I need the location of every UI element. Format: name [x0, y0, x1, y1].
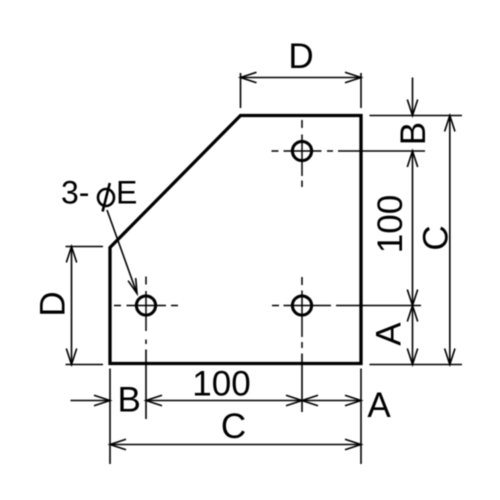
leader 3-phiE text: [61, 175, 137, 211]
dimension D top extension left: [240, 73, 242, 108]
centerline H2 vertical: [301, 277, 303, 348]
dimension A right line: [407, 306, 417, 365]
svg-text:A: A: [367, 386, 391, 425]
dimension B right top extension: [370, 115, 463, 117]
dimension D left line: [66, 247, 76, 365]
svg-text:100: 100: [192, 365, 250, 404]
svg-text:D: D: [288, 37, 313, 76]
leader line with arrow: [107, 210, 137, 294]
dimension D top line: [241, 72, 362, 82]
dimension B right arrow: [407, 78, 417, 116]
dimension 100 bottom line: [146, 395, 302, 405]
svg-text:D: D: [34, 291, 73, 316]
centerline H3 horizontal: [114, 305, 178, 307]
centerline H3 vertical: [145, 277, 147, 345]
svg-text:A: A: [370, 322, 409, 346]
dimension D left extension bottom: [66, 364, 104, 366]
svg-text:C: C: [417, 225, 456, 250]
centerline H1 horizontal: [272, 150, 334, 152]
svg-text:B: B: [118, 381, 141, 420]
hole H1 top: [292, 141, 311, 160]
svg-text:3-: 3-: [61, 175, 89, 211]
svg-text:E: E: [116, 175, 137, 211]
phi symbol: [98, 183, 114, 212]
extension line H3 center down: [145, 350, 147, 420]
extension line H2 center down: [301, 354, 303, 413]
dimension C bottom line: [110, 439, 361, 449]
dimension D top extension right: [360, 73, 362, 108]
hole H2 bottom right: [292, 296, 311, 315]
bottom left extension line: [109, 369, 111, 465]
svg-text:C: C: [221, 407, 246, 446]
dimension A bottom line: [302, 395, 361, 405]
dimension B bottom arrow: [71, 395, 111, 405]
centerline H1 vertical: [301, 120, 303, 187]
dimension 100 right line: [407, 151, 417, 306]
dimension C right line: [445, 116, 455, 365]
extension line H1 centerline to right: [338, 150, 425, 152]
svg-text:B: B: [394, 122, 433, 145]
centerline H2 horizontal: [272, 305, 331, 307]
extension line H2 centerline to right: [336, 305, 421, 307]
dimension C right bottom extension: [370, 364, 463, 366]
bottom right extension line: [360, 369, 362, 465]
dimension D left extension top: [66, 246, 104, 248]
plate outline: [110, 116, 361, 364]
hole H3 bottom left: [136, 296, 155, 315]
svg-text:100: 100: [371, 195, 410, 253]
